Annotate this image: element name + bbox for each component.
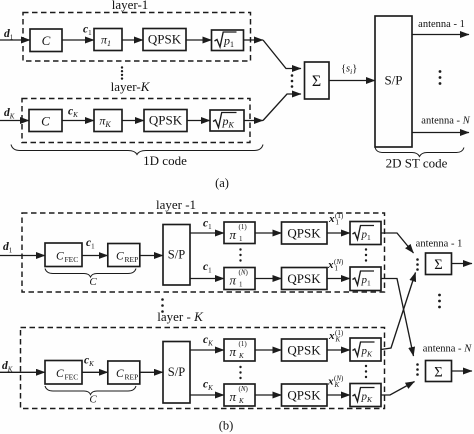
dots between branches pi (b1) xyxy=(239,248,241,250)
wire S/P to piK(1) xyxy=(190,349,224,351)
svg-text:C: C xyxy=(116,251,124,263)
gain sqrt(p1) (b1 upper) xyxy=(350,222,381,245)
svg-text:2D ST code: 2D ST code xyxy=(386,156,448,171)
block QPSK (b1 upper) xyxy=(282,222,328,244)
wire pi1(1) to QPSK xyxy=(255,232,282,234)
wire QPSK to sqrt(p1) xyxy=(186,39,212,41)
wire diagonal to sum xyxy=(263,40,301,69)
svg-text:layer -1: layer -1 xyxy=(156,197,196,212)
brace C (layer-1 b) xyxy=(45,269,136,278)
svg-text:K: K xyxy=(238,397,244,405)
svg-text:QPSK: QPSK xyxy=(149,113,183,128)
wire to antenna-1 sum (long diagonal up) xyxy=(381,273,416,350)
svg-text:antenna - 1: antenna - 1 xyxy=(416,239,463,250)
svg-text:(1): (1) xyxy=(239,340,248,348)
wire pi1 to QPSK xyxy=(122,39,143,41)
svg-text:cK: cK xyxy=(68,106,78,120)
wire antenna-N (a) xyxy=(412,132,469,134)
dots before sum (a) xyxy=(291,74,294,77)
svg-text:QPSK: QPSK xyxy=(287,271,321,286)
svg-text:π: π xyxy=(230,389,237,404)
svg-text:layer-1: layer-1 xyxy=(112,0,149,12)
gain sqrt(pK) (layer-K a) xyxy=(210,110,244,131)
block C_FEC (layer-1 b) xyxy=(45,243,82,267)
wire piK to QPSK xyxy=(122,120,144,122)
block C (layer-1 a) xyxy=(30,29,62,52)
svg-text:dK: dK xyxy=(4,107,15,121)
svg-text:(N): (N) xyxy=(334,375,344,383)
wire piK(N) to QPSK xyxy=(255,394,282,396)
block C_REP (layer-1 b) xyxy=(108,244,140,267)
brace 1D code xyxy=(11,145,263,155)
svg-text:cK: cK xyxy=(203,334,213,348)
block C_FEC (layer-K b) xyxy=(45,361,82,385)
svg-text:QPSK: QPSK xyxy=(287,343,321,358)
block S/P (a) xyxy=(375,16,412,147)
dots before sum antenna-1 (b) xyxy=(416,258,419,261)
svg-text:1: 1 xyxy=(239,235,243,243)
wire antenna-N output (b) xyxy=(452,370,473,372)
wire d1 input (b) xyxy=(0,255,45,257)
svg-text:antenna - N: antenna - N xyxy=(421,116,470,127)
svg-text:1D code: 1D code xyxy=(143,153,187,168)
wire antenna-1 (a) xyxy=(412,34,469,36)
wire C to piK xyxy=(62,120,94,122)
block C (layer-K a) xyxy=(29,110,62,132)
wire sum to S/P xyxy=(329,80,375,82)
svg-text:C: C xyxy=(56,368,64,380)
svg-text:antenna - N: antenna - N xyxy=(423,344,472,355)
brace 2D ST code xyxy=(375,148,464,157)
wire d1 input xyxy=(0,39,30,41)
wire CFEC to CREP (b1) xyxy=(82,255,108,257)
svg-text:REP: REP xyxy=(125,373,139,382)
svg-text:layer - K: layer - K xyxy=(157,309,204,324)
svg-text:π: π xyxy=(230,273,237,288)
svg-text:C: C xyxy=(89,276,97,288)
interleaver pi1(1) xyxy=(224,222,255,244)
svg-text:S/P: S/P xyxy=(384,73,402,88)
svg-text:(1): (1) xyxy=(239,223,248,231)
dots antennas (a) xyxy=(439,70,442,73)
svg-text:FEC: FEC xyxy=(65,255,79,264)
summer antenna-1 (b) xyxy=(426,253,452,275)
interleaver pi1(N) xyxy=(224,268,255,290)
wire QPSK to sqrt(pK) lower xyxy=(327,394,350,396)
svg-text:c1: c1 xyxy=(203,261,212,275)
svg-text:π: π xyxy=(230,344,237,359)
dashed box layer-K (b) xyxy=(21,328,385,409)
block S/P (layer-K b) xyxy=(163,342,190,404)
svg-text:{si}: {si} xyxy=(341,64,357,77)
svg-text:QPSK: QPSK xyxy=(287,388,321,403)
svg-text:QPSK: QPSK xyxy=(287,226,321,241)
svg-text:Σ: Σ xyxy=(312,73,321,90)
svg-text:antenna - 1: antenna - 1 xyxy=(418,19,465,30)
svg-text:x: x xyxy=(327,259,334,271)
dots between antennas (b) xyxy=(438,294,441,297)
summer antenna-N (b) xyxy=(426,361,452,382)
svg-text:(N): (N) xyxy=(334,258,344,266)
gain sqrt(pK) (bK upper) xyxy=(350,338,381,361)
svg-text:Σ: Σ xyxy=(434,257,442,273)
block QPSK (layer-1 a) xyxy=(143,29,186,51)
wire S/P to pi1(N) xyxy=(190,278,224,280)
svg-text:S/P: S/P xyxy=(168,365,185,379)
svg-text:REP: REP xyxy=(125,255,139,264)
svg-text:C: C xyxy=(41,114,50,129)
dots between branches sqrt (b1) xyxy=(365,248,367,250)
svg-text:Σ: Σ xyxy=(434,365,442,381)
summer block (a) xyxy=(305,62,330,99)
dots between branches pi (bK) xyxy=(239,366,241,368)
svg-text:x: x xyxy=(327,376,334,388)
svg-text:d1: d1 xyxy=(3,241,13,255)
block QPSK (bK upper) xyxy=(282,339,328,361)
block C_REP (layer-K b) xyxy=(108,361,140,384)
svg-text:dK: dK xyxy=(2,360,13,374)
svg-text:(1): (1) xyxy=(335,212,344,220)
dots between branches sqrt (bK) xyxy=(365,365,367,367)
wire dK input (b) xyxy=(0,371,45,373)
svg-text:C: C xyxy=(56,251,64,263)
wire piK(1) to QPSK xyxy=(255,349,282,351)
block QPSK (bK lower) xyxy=(282,384,328,406)
block QPSK (layer-K a) xyxy=(144,110,187,132)
svg-text:QPSK: QPSK xyxy=(148,32,182,47)
gain sqrt(pK) (bK lower) xyxy=(350,384,381,407)
wire antenna-1 output (b) xyxy=(452,263,473,265)
dashed box layer-1 (a) xyxy=(23,13,251,62)
svg-text:K: K xyxy=(238,352,244,360)
wire diagonal to sum xyxy=(263,94,301,121)
wire layer-K output xyxy=(244,120,263,122)
interleaver piK(N) xyxy=(224,384,255,406)
wire CREP to S/P (b1) xyxy=(140,255,163,257)
wire pi1(N) to QPSK xyxy=(255,278,282,280)
wire layer-1 output xyxy=(244,39,264,41)
svg-text:(N): (N) xyxy=(239,385,249,393)
wire dK input xyxy=(0,120,29,122)
svg-text:c1: c1 xyxy=(86,237,95,251)
wire C to pi1 xyxy=(62,39,94,41)
svg-text:FEC: FEC xyxy=(65,373,79,382)
svg-text:S/P: S/P xyxy=(168,248,185,262)
dots before sum antenna-N (b) xyxy=(416,363,419,366)
wire CFEC to CREP (bK) xyxy=(82,371,108,373)
wire QPSK to sqrt(pK) xyxy=(187,120,210,122)
wire QPSK to sqrt(pK) upper xyxy=(327,349,350,351)
svg-text:(N): (N) xyxy=(239,269,249,277)
svg-text:C: C xyxy=(116,368,124,380)
wire QPSK to sqrt(p1) upper xyxy=(327,232,350,234)
svg-text:(1): (1) xyxy=(335,329,344,337)
svg-text:π: π xyxy=(230,227,237,242)
svg-text:c1: c1 xyxy=(203,218,212,232)
svg-text:cK: cK xyxy=(203,379,213,393)
block S/P (layer-1 b) xyxy=(163,225,190,286)
interleaver piK(1) xyxy=(224,339,255,361)
wire QPSK to sqrt(p1) lower xyxy=(327,278,350,280)
wire CREP to S/P (bK) xyxy=(140,371,163,373)
dots between layers (a) xyxy=(121,66,123,68)
svg-text:layer-K: layer-K xyxy=(111,79,151,94)
svg-text:x: x xyxy=(328,330,335,342)
dots between layer boxes (b) xyxy=(161,298,164,301)
interleaver pi1 xyxy=(94,29,122,51)
svg-text:C: C xyxy=(89,394,97,406)
block QPSK (b1 lower) xyxy=(282,268,328,290)
wire S/P to piK(N) xyxy=(190,394,224,396)
wire to antenna-N sum (long diagonal down) xyxy=(381,279,414,357)
dashed box layer-1 (b) xyxy=(22,213,385,292)
svg-text:cK: cK xyxy=(84,355,94,369)
dashed box layer-K (a) xyxy=(22,99,250,143)
wire to antenna-1 sum xyxy=(381,233,414,253)
svg-text:(a): (a) xyxy=(215,176,229,190)
brace C (layer-K b) xyxy=(45,386,136,395)
gain sqrt(p1) (layer-1 a) xyxy=(212,30,244,51)
wire to antenna-N sum (short diagonal up) xyxy=(381,382,415,396)
svg-text:x: x xyxy=(328,213,335,225)
svg-text:c1: c1 xyxy=(83,24,92,38)
gain sqrt(p1) (b1 lower) xyxy=(350,267,381,291)
svg-text:1: 1 xyxy=(239,281,243,289)
svg-text:C: C xyxy=(42,33,51,48)
interleaver piK xyxy=(94,110,122,132)
wire S/P to pi1(1) xyxy=(190,232,224,234)
svg-text:(b): (b) xyxy=(219,419,234,433)
